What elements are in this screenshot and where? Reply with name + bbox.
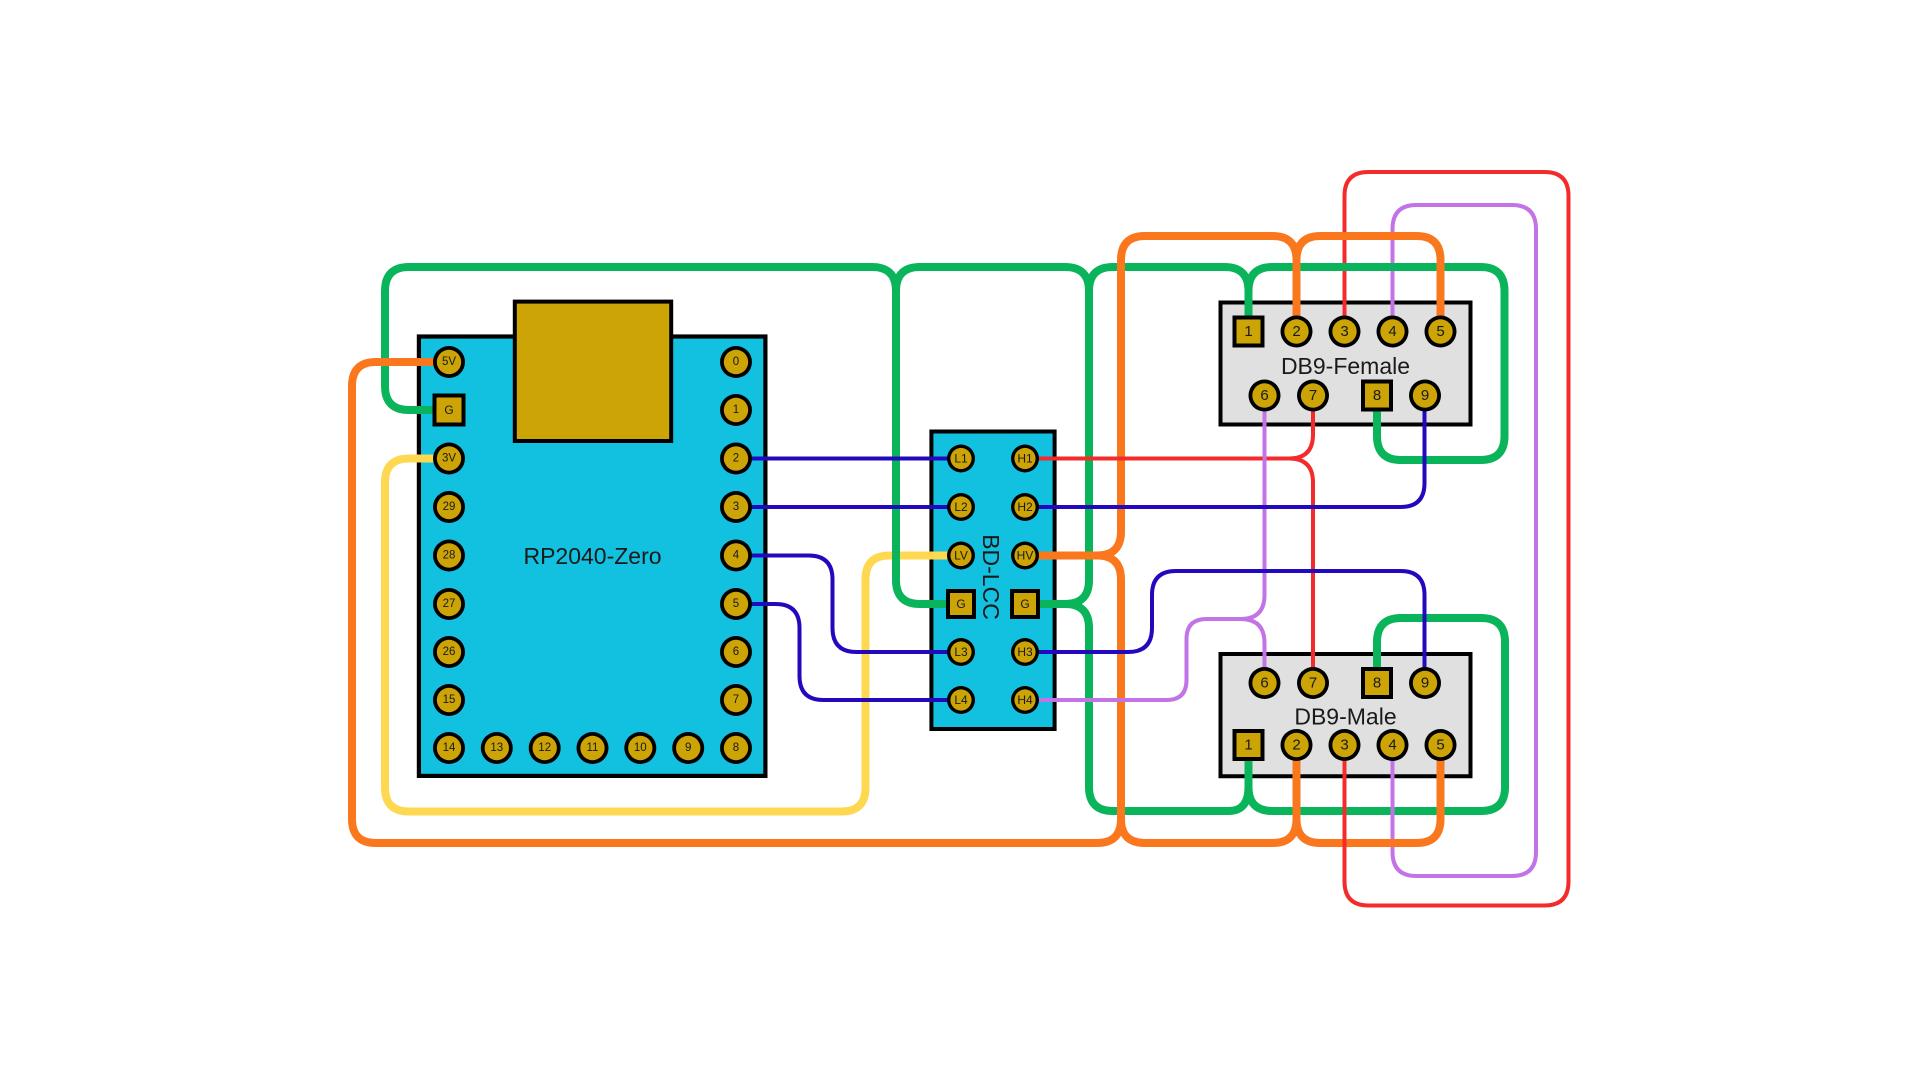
DB9-Male pin 8 <box>1361 667 1393 699</box>
RP2040 pin 28 <box>433 540 465 572</box>
DB9-Male pin 4 <box>1377 729 1409 761</box>
svg-text:4: 4 <box>1388 737 1396 754</box>
svg-text:G: G <box>444 403 453 417</box>
BD-LCC pin L4 <box>947 686 975 714</box>
BD-LCC pin L1 <box>947 445 975 473</box>
svg-text:5V: 5V <box>442 356 456 368</box>
DB9-Female pin 6 <box>1249 380 1281 412</box>
RP2040 pin 7 <box>720 684 752 716</box>
svg-text:27: 27 <box>443 598 456 610</box>
svg-text:2: 2 <box>1292 737 1300 754</box>
RP2040 pin 26 <box>433 636 465 668</box>
DB9-Female pin 2 <box>1281 316 1313 348</box>
BD-LCC pin H2 <box>1011 493 1039 521</box>
wire 3V3: RP2040 3V to BD-LCC LV <box>385 459 961 812</box>
svg-text:H2: H2 <box>1017 500 1033 514</box>
svg-text:L3: L3 <box>954 645 968 659</box>
svg-text:1: 1 <box>733 404 739 416</box>
RP2040 pin 3 <box>720 491 752 523</box>
svg-text:5: 5 <box>1436 737 1444 754</box>
wire GND: RP2040 G to BD-LCC G left <box>385 267 961 604</box>
svg-text:14: 14 <box>443 742 456 754</box>
DB9-Male pin 1 <box>1233 729 1265 761</box>
RP2040 pin 10 <box>624 732 656 764</box>
wire 5V: BD-LCC HV along top bus to DB9-Female 2 <box>1097 236 1297 556</box>
DB9-Male pin 5 <box>1425 729 1457 761</box>
svg-text:5: 5 <box>1436 323 1444 340</box>
BD-LCC pin H1 <box>1011 445 1039 473</box>
BD-LCC pin G left <box>946 589 976 619</box>
wire 5V: bottom bus to DB9-Male 2 <box>1121 745 1297 843</box>
wire GND: top bus to DB9-Female 8 <box>1249 267 1505 460</box>
svg-text:RP2040-Zero: RP2040-Zero <box>523 543 661 569</box>
RP2040 pin 2 <box>720 443 752 475</box>
svg-text:3: 3 <box>1340 737 1348 754</box>
svg-text:4: 4 <box>733 550 740 562</box>
RP2040 pin 4 <box>720 540 752 572</box>
svg-text:9: 9 <box>1421 387 1429 404</box>
DB9-Male pin 6 <box>1249 667 1281 699</box>
RP2040-Zero USB connector <box>515 302 671 441</box>
DB9-Male pin 2 <box>1281 729 1313 761</box>
svg-text:G: G <box>956 597 965 611</box>
BD-LCC pin G right <box>1010 589 1040 619</box>
svg-text:LV: LV <box>954 549 968 563</box>
wire: RP2040 2 to BD-LCC L1 <box>736 457 961 461</box>
DB9-Female pin 1 <box>1233 316 1265 348</box>
DB9-Male body <box>1221 654 1471 776</box>
wire: RP2040 5 to BD-LCC L4 <box>736 604 961 700</box>
wire: junction to DB9-Male 7 <box>1289 459 1313 684</box>
svg-text:7: 7 <box>1309 387 1317 404</box>
wire: DB9-Female 6 to junction <box>1241 396 1265 620</box>
svg-text:9: 9 <box>685 742 691 754</box>
svg-text:9: 9 <box>1421 675 1429 692</box>
wire GND: bottom bus to DB9-Male 8 <box>1249 618 1506 811</box>
BD-LCC pin H3 <box>1011 638 1039 666</box>
DB9-Female pin 8 <box>1361 380 1393 412</box>
DB9-Female pin 4 <box>1377 316 1409 348</box>
svg-text:2: 2 <box>1292 323 1300 340</box>
RP2040 pin G <box>433 394 466 427</box>
svg-text:7: 7 <box>733 694 739 706</box>
DB9-Female pin 9 <box>1409 380 1441 412</box>
svg-text:28: 28 <box>443 550 456 562</box>
wire 5V: bottom bus to DB9-Male 5 <box>1297 745 1441 843</box>
BD-LCC pin L2 <box>947 493 975 521</box>
svg-text:H4: H4 <box>1017 693 1033 707</box>
svg-text:1: 1 <box>1244 323 1252 340</box>
svg-text:DB9-Male: DB9-Male <box>1294 704 1396 730</box>
svg-text:H3: H3 <box>1017 645 1033 659</box>
svg-text:L4: L4 <box>954 693 968 707</box>
svg-text:HV: HV <box>1017 549 1034 563</box>
BD-LCC pin H4 <box>1011 686 1039 714</box>
wire GND: top bus to BD-LCC G right <box>896 267 1089 604</box>
svg-text:4: 4 <box>1388 323 1396 340</box>
svg-text:26: 26 <box>443 646 456 658</box>
wire 5V: RP2040 5V along bottom bus up to BD-LCC HV <box>352 362 1121 843</box>
svg-text:0: 0 <box>733 356 739 368</box>
RP2040 pin 13 <box>481 732 513 764</box>
BD-LCC pin HV <box>1011 542 1039 570</box>
svg-text:BD-LCC: BD-LCC <box>978 534 1004 620</box>
wire: RP2040 3 to BD-LCC L2 <box>736 505 961 509</box>
svg-text:7: 7 <box>1309 675 1317 692</box>
svg-text:5: 5 <box>733 598 739 610</box>
RP2040 pin 11 <box>577 732 609 764</box>
RP2040 pin 15 <box>433 684 465 716</box>
DB9-Male pin 7 <box>1297 667 1329 699</box>
DB9-Male pin 3 <box>1329 729 1361 761</box>
svg-text:10: 10 <box>634 742 647 754</box>
RP2040 pin 12 <box>529 732 561 764</box>
wire GND: top bus to DB9-Female 1 <box>1089 267 1249 332</box>
svg-text:1: 1 <box>1244 737 1252 754</box>
svg-text:11: 11 <box>587 742 599 754</box>
svg-text:3: 3 <box>733 501 739 513</box>
wire: DB9-Female 3 to DB9-Male 3 <box>1345 172 1569 906</box>
svg-text:15: 15 <box>443 694 456 706</box>
svg-text:DB9-Female: DB9-Female <box>1281 353 1410 379</box>
RP2040 pin 14 <box>433 732 465 764</box>
svg-text:3V: 3V <box>442 453 456 465</box>
DB9-Female pin 3 <box>1329 316 1361 348</box>
svg-text:H1: H1 <box>1017 452 1033 466</box>
DB9-Male pin 9 <box>1409 667 1441 699</box>
wire: BD-LCC H4 to DB9-Male 6 <box>1026 619 1265 700</box>
wire: BD-LCC H3 to DB9-Male 9 <box>1025 571 1425 683</box>
BD-LCC pin LV <box>947 542 975 570</box>
RP2040 pin 0 <box>720 346 752 378</box>
DB9-Female pin 5 <box>1425 316 1457 348</box>
svg-text:L2: L2 <box>954 500 968 514</box>
wire: BD-LCC H1 to DB9-Female 7 <box>1025 396 1313 459</box>
svg-text:12: 12 <box>538 742 551 754</box>
wire: DB9-Female 4 to DB9-Male 4 <box>1393 205 1537 876</box>
wire: RP2040 4 to BD-LCC L3 <box>736 556 961 653</box>
BD-LCC pin L3 <box>947 638 975 666</box>
svg-text:29: 29 <box>443 501 456 513</box>
svg-text:2: 2 <box>733 453 739 465</box>
RP2040 pin 9 <box>672 732 704 764</box>
svg-text:8: 8 <box>733 742 739 754</box>
RP2040 pin 6 <box>720 636 752 668</box>
RP2040 pin 1 <box>720 394 752 426</box>
svg-text:6: 6 <box>1260 387 1268 404</box>
svg-text:6: 6 <box>733 646 739 658</box>
svg-text:G: G <box>1020 597 1029 611</box>
RP2040 pin 5V <box>433 346 465 378</box>
svg-text:13: 13 <box>490 742 503 754</box>
wire GND: BD-LCC G right down to DB9-Male 1 <box>1065 604 1249 811</box>
svg-text:8: 8 <box>1373 387 1381 404</box>
RP2040-Zero board body <box>419 337 766 776</box>
RP2040 pin 3V <box>433 443 465 475</box>
DB9-Female pin 7 <box>1297 380 1329 412</box>
svg-text:L1: L1 <box>954 452 968 466</box>
wire: BD-LCC H2 to DB9-Female 9 <box>1025 396 1425 508</box>
RP2040 pin 27 <box>433 588 465 620</box>
DB9-Female body <box>1221 303 1471 425</box>
svg-text:8: 8 <box>1373 675 1381 692</box>
svg-text:3: 3 <box>1340 323 1348 340</box>
BD-LCC module body <box>931 432 1054 730</box>
RP2040 pin 8 <box>720 732 752 764</box>
svg-text:6: 6 <box>1260 675 1268 692</box>
RP2040 pin 5 <box>720 588 752 620</box>
RP2040 pin 29 <box>433 491 465 523</box>
wire 5V: top bus to DB9-Female 5 <box>1297 236 1441 332</box>
